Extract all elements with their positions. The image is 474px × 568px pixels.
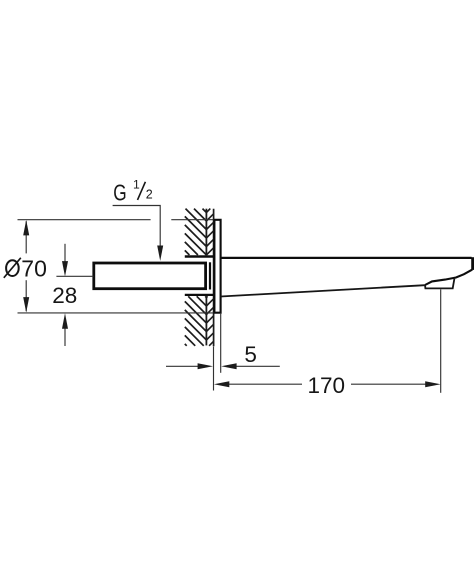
spout right end edge — [471, 257, 474, 270]
aerator ext line — [440, 289, 442, 392]
ext line top (flange top) — [18, 219, 151, 221]
wall flange (escutcheon) — [214, 220, 220, 313]
wall hole lower edge — [185, 294, 214, 296]
spout body top edge — [221, 257, 472, 259]
svg-text:1: 1 — [133, 178, 140, 192]
arrowheads — [23, 220, 440, 387]
170 dim line left part — [228, 383, 302, 385]
spout bottom edge — [221, 285, 425, 296]
170 dim line right part — [351, 383, 426, 385]
wall hole upper edge — [185, 255, 214, 258]
svg-text:28: 28 — [52, 283, 77, 308]
28 up arrow — [62, 313, 68, 328]
wall layer boundary line — [205, 209, 207, 346]
shank end ring — [209, 262, 211, 289]
dia70 dimension line — [25, 221, 27, 253]
pipe centre ext line — [56, 275, 93, 277]
5 left arrow — [198, 363, 213, 369]
28 upper arrow line — [64, 244, 66, 263]
170 right arrow — [425, 381, 440, 387]
wall face ext line lower — [213, 347, 215, 391]
5 dim left arrow tail — [166, 365, 199, 367]
wall hatch tile layer chevrons — [206, 209, 213, 346]
flange right ext line lower — [220, 314, 222, 373]
ext line bottom (flange bottom) — [18, 312, 214, 314]
label G 1/2 — [113, 178, 153, 206]
G half leader — [113, 206, 161, 248]
svg-text:5: 5 — [244, 342, 257, 367]
inlet pipe shank — [94, 263, 206, 289]
svg-text:70: 70 — [21, 255, 47, 281]
28 down arrow — [62, 261, 68, 276]
28 lower arrow line — [64, 327, 66, 346]
5 dim right arrow tail — [235, 365, 280, 367]
label dia 70 — [4, 255, 47, 281]
5 right arrow — [221, 363, 236, 369]
svg-text:170: 170 — [308, 373, 346, 398]
dimension graphics — [18, 206, 441, 393]
aerator (mousseur) — [425, 279, 454, 289]
svg-text:2: 2 — [146, 188, 153, 202]
dia70 up arrow — [23, 220, 29, 235]
G half leader arrow — [157, 246, 163, 261]
svg-text:G: G — [113, 179, 126, 205]
wall face line — [213, 209, 215, 347]
wall hatch main layer — [185, 209, 207, 346]
170 left arrow — [214, 381, 229, 387]
dia70 down arrow — [23, 297, 29, 312]
spout underside chamfer — [425, 270, 472, 285]
